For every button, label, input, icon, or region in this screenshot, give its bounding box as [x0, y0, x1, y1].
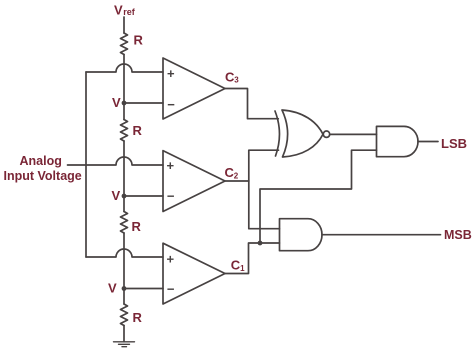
wire C1 output to AND MSB bottom input	[225, 243, 280, 274]
svg-text:V: V	[114, 3, 123, 18]
wire C2 output to junction	[225, 180, 249, 182]
wire XNOR output to AND LSB top input	[330, 133, 377, 135]
wire analog input bus	[85, 72, 87, 257]
label Vref	[114, 3, 136, 18]
svg-text:3: 3	[234, 76, 239, 85]
label R4	[133, 310, 143, 325]
svg-text:V: V	[112, 95, 121, 110]
wire V3 to C1 - input	[124, 288, 163, 290]
wire MSB output	[322, 234, 441, 236]
wire V1 to C3 - input	[124, 102, 163, 104]
node C1 junction	[258, 241, 263, 246]
wire hop line to C1 + input	[86, 249, 163, 257]
svg-text:2: 2	[234, 171, 239, 180]
label V3	[108, 281, 117, 296]
svg-text:LSB: LSB	[441, 136, 467, 151]
AND gate LSB	[377, 126, 419, 156]
ground	[114, 342, 135, 347]
svg-text:Input Voltage: Input Voltage	[4, 169, 82, 183]
wire LSB output	[418, 141, 438, 143]
wire junction up to XNOR bottom input	[249, 150, 279, 181]
label LSB	[441, 136, 467, 151]
label C3	[225, 69, 239, 84]
svg-text:1: 1	[240, 264, 245, 273]
svg-text:V: V	[112, 188, 121, 203]
label MSB	[444, 228, 472, 242]
wire C1 junction to AND LSB bottom input	[260, 150, 377, 243]
label V2	[112, 188, 121, 203]
resistor R4	[121, 304, 128, 326]
svg-text:−: −	[167, 189, 175, 204]
svg-text:V: V	[108, 281, 117, 296]
node V3	[122, 286, 127, 291]
label V1	[112, 95, 121, 110]
wire Vref lead	[123, 17, 125, 33]
XNOR gate U1 body	[282, 110, 323, 157]
XNOR gate U1 extra input curve	[275, 111, 279, 156]
svg-text:R: R	[133, 123, 143, 138]
wire V2 to C2 - input	[124, 195, 163, 197]
svg-text:Analog: Analog	[20, 154, 62, 168]
svg-text:ref: ref	[123, 7, 136, 17]
wire hop line to C3 + input	[86, 64, 163, 72]
op-amp comparator C2	[163, 151, 225, 212]
wire ladder R4 to ground	[123, 326, 125, 342]
XNOR bubble	[323, 131, 329, 137]
resistor R1	[121, 33, 128, 55]
resistor R2	[121, 120, 128, 142]
label R2	[133, 123, 143, 138]
svg-text:R: R	[133, 310, 143, 325]
wire ladder R2 to V2 node	[123, 141, 125, 212]
label Analog Input Voltage	[4, 154, 82, 183]
wire C3 output to XNOR top input	[225, 89, 278, 119]
svg-text:MSB: MSB	[444, 228, 472, 242]
svg-text:+: +	[167, 252, 175, 267]
svg-text:−: −	[167, 281, 175, 296]
resistor R3	[121, 212, 128, 234]
wire ladder R1 to V1 node	[123, 55, 125, 120]
label C2	[225, 165, 239, 180]
svg-text:R: R	[134, 33, 144, 48]
wire ladder R3 to V3 node	[123, 233, 125, 304]
svg-text:+: +	[167, 66, 175, 81]
svg-text:−: −	[167, 97, 175, 112]
label R3	[132, 219, 142, 234]
label R1	[134, 33, 144, 48]
node V2	[122, 194, 127, 199]
svg-text:+: +	[167, 158, 175, 173]
wire junction down to AND MSB top input	[249, 181, 280, 229]
svg-text:R: R	[132, 219, 142, 234]
wire analog input with hop to C2 + input	[68, 157, 164, 165]
node V1	[122, 101, 127, 106]
AND gate MSB	[280, 219, 323, 251]
op-amp comparator C1	[163, 243, 225, 304]
op-amp comparator C3	[163, 58, 225, 119]
label C1	[231, 258, 245, 273]
